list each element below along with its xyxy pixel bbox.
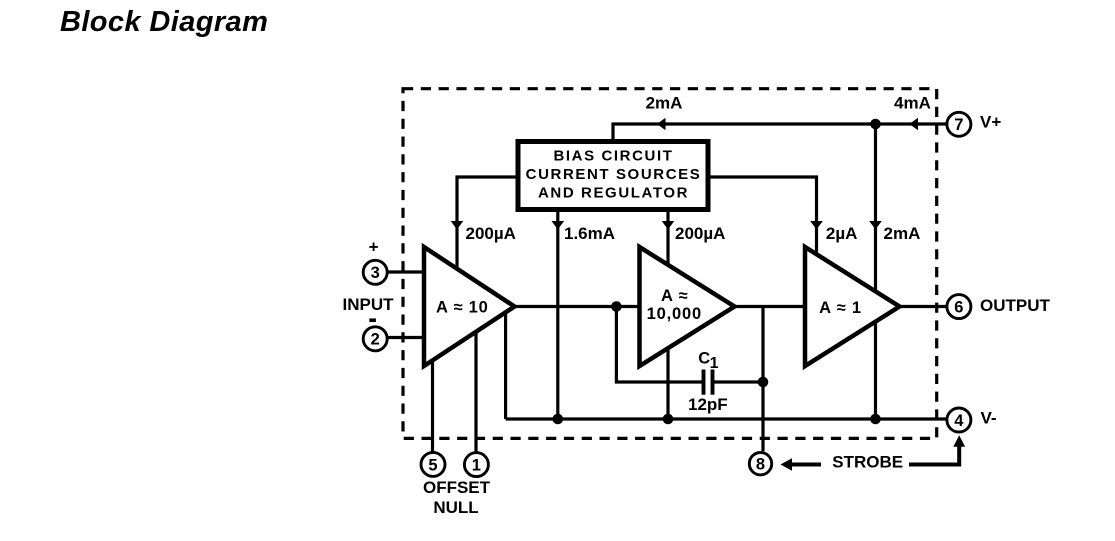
- svg-text:BIAS CIRCUIT: BIAS CIRCUIT: [553, 148, 673, 165]
- svg-text:V+: V+: [980, 113, 1001, 132]
- svg-text:3: 3: [371, 264, 380, 282]
- svg-text:5: 5: [428, 456, 437, 474]
- svg-text:INPUT: INPUT: [343, 295, 395, 314]
- svg-text:NULL: NULL: [433, 498, 478, 517]
- svg-text:A ≈ 10: A ≈ 10: [436, 299, 489, 317]
- svg-text:2mA: 2mA: [884, 224, 921, 243]
- svg-text:A ≈ 1: A ≈ 1: [819, 299, 862, 317]
- svg-text:2mA: 2mA: [646, 94, 683, 113]
- svg-text:8: 8: [756, 456, 765, 474]
- svg-text:V-: V-: [981, 409, 997, 428]
- svg-text:200µA: 200µA: [466, 224, 516, 243]
- svg-text:1: 1: [472, 457, 481, 475]
- svg-text:C: C: [698, 350, 710, 368]
- svg-text:A ≈: A ≈: [661, 287, 688, 305]
- svg-text:AND REGULATOR: AND REGULATOR: [538, 185, 689, 202]
- svg-text:1.6mA: 1.6mA: [564, 224, 615, 243]
- svg-text:+: +: [369, 238, 379, 257]
- svg-text:4: 4: [954, 412, 964, 430]
- svg-text:4mA: 4mA: [894, 94, 931, 113]
- svg-text:2: 2: [371, 331, 380, 349]
- svg-text:1: 1: [710, 355, 719, 372]
- svg-text:STROBE: STROBE: [832, 453, 903, 472]
- svg-text:OUTPUT: OUTPUT: [980, 296, 1051, 315]
- svg-text:12pF: 12pF: [688, 395, 728, 414]
- svg-text:CURRENT SOURCES: CURRENT SOURCES: [526, 166, 702, 183]
- svg-text:7: 7: [954, 116, 963, 134]
- svg-text:2µA: 2µA: [826, 224, 858, 243]
- svg-text:10,000: 10,000: [647, 305, 702, 323]
- svg-text:OFFSET: OFFSET: [423, 478, 491, 497]
- svg-text:200µA: 200µA: [675, 224, 725, 243]
- svg-text:Block Diagram: Block Diagram: [60, 6, 268, 38]
- svg-text:6: 6: [954, 299, 963, 317]
